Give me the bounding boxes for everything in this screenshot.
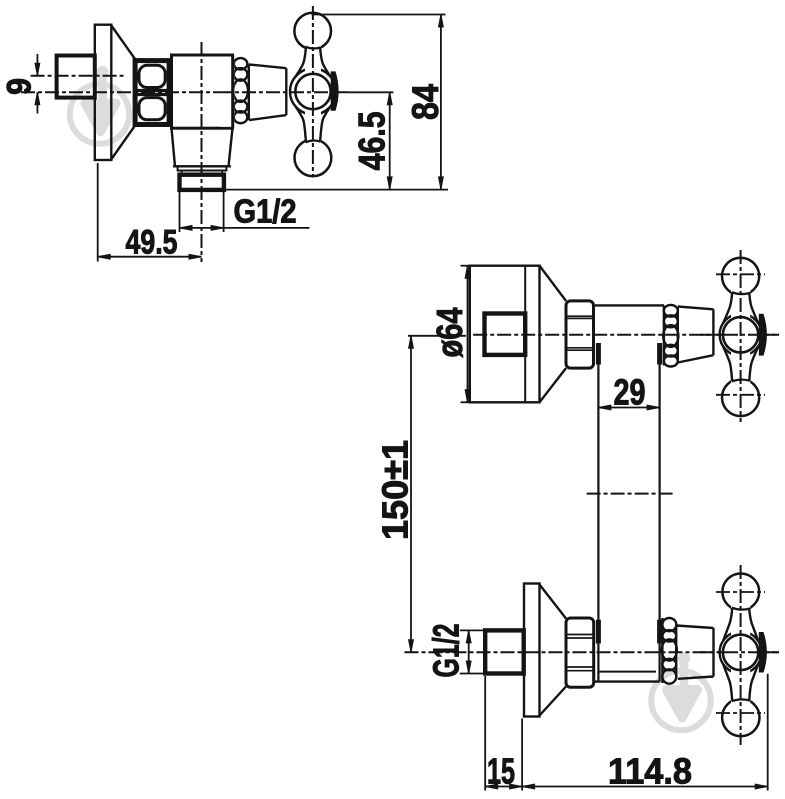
dimension 150 line: [410, 336, 412, 653]
escutcheon cone upper edge: [111, 26, 137, 63]
svg-text:49.5: 49.5: [126, 224, 178, 262]
body vertical centerline: [201, 42, 203, 262]
dimension 29 line: [598, 407, 659, 409]
redraw bottom axis over hub: [700, 651, 779, 653]
svg-text:9: 9: [1, 78, 39, 95]
top hex nut: [566, 301, 594, 368]
pipe junction thick fillets bottom: [596, 620, 601, 644]
bottom dimension extension lines: [484, 676, 486, 791]
top connection axis centerline: [473, 334, 779, 336]
bottom elbow lower lines: [598, 671, 656, 673]
bonnet cone: [249, 64, 286, 120]
elbow top line: [595, 304, 664, 306]
bottom hex nut: [566, 618, 594, 687]
handle arm white fill: [305, 39, 321, 149]
bottom handle hub housing: [720, 631, 762, 673]
dimension G1/2 extension lines: [179, 191, 181, 232]
dimension 49.5 line: [98, 256, 202, 258]
top collar scallops: [663, 305, 678, 367]
top handle hub inner circle: [723, 317, 758, 352]
dimension G1/2 line with leader: [180, 227, 310, 229]
bottom handle bottom knob: [722, 699, 759, 736]
svg-text:84: 84: [405, 84, 446, 120]
handle front cap (black): [331, 71, 339, 110]
bottom knob: [295, 139, 332, 176]
wall flange plate: [95, 25, 112, 160]
dimension G1/2 bottom extension lines: [460, 629, 485, 631]
dimension 9 arrows: [36, 54, 38, 76]
top handle arm waist edges: [723, 292, 758, 381]
axis extension to 46.5: [348, 91, 393, 93]
dimension 46.5 line: [389, 92, 391, 189]
bottom dimension line 15 / 114.8: [485, 786, 768, 788]
pipe junction thick fillets top: [596, 343, 601, 365]
bottom collar scallops: [662, 618, 677, 684]
dimension 84 top extension line: [312, 14, 446, 16]
top handle arm white fill: [731, 284, 750, 390]
decorative collar scallops: [233, 58, 248, 123]
bottom escutcheon plate: [524, 584, 540, 717]
top handle bottom knob: [722, 379, 759, 416]
top wall stub (square): [485, 314, 526, 355]
svg-text:ø64: ø64: [429, 308, 470, 358]
top handle front cap (black): [759, 314, 767, 356]
outlet threaded stub G1/2: [180, 175, 224, 190]
valve body main rectangle: [172, 55, 233, 128]
svg-text:G1/2: G1/2: [426, 624, 467, 678]
redraw top axis over hub: [700, 334, 779, 336]
bottom handle arm waist edges: [723, 608, 758, 701]
bottom handle vertical centerline: [740, 565, 742, 745]
watermark logo top-left: [70, 66, 129, 144]
top handle knob crosshairs: [716, 273, 765, 275]
bottom cone edges: [540, 585, 567, 716]
top handle vertical centerline: [740, 250, 742, 422]
body interior mask over scallops: [220, 57, 234, 127]
outlet thin band: [182, 171, 223, 175]
escutcheon cone lower edge: [111, 122, 137, 159]
top cone edges: [540, 266, 567, 403]
top bonnet cone: [678, 307, 714, 363]
inlet pipe (threaded wall stub): [57, 56, 95, 98]
bottom connection axis centerline: [405, 651, 780, 653]
bottom handle top knob: [722, 574, 759, 611]
outlet flare band: [178, 166, 227, 170]
dimension 84 line: [440, 15, 442, 190]
svg-text:15: 15: [487, 751, 515, 792]
handle hub housing: [290, 69, 336, 115]
top knob: [294, 13, 331, 50]
riser pipe left edge: [597, 343, 599, 682]
bottom handle front cap (black): [759, 632, 767, 673]
redraw axis over hub: [218, 91, 348, 93]
dimension o64 extension lines: [461, 265, 470, 267]
top handle top knob: [722, 258, 759, 295]
valve body lower taper: [172, 128, 233, 166]
cup rim line: [524, 266, 526, 403]
top escutcheon cup: [470, 266, 540, 403]
dimension 150 extension lines: [408, 335, 466, 337]
bottom handle knob neck arcs: [732, 608, 750, 702]
bottom handle hub inner circle: [723, 635, 758, 670]
bottom bonnet cone: [676, 626, 713, 679]
svg-text:29: 29: [614, 372, 646, 413]
body axis centerline: [21, 91, 218, 93]
hex nut: [135, 61, 169, 125]
watermark logo bottom-right: [651, 653, 710, 731]
inlet pipe centerline: [31, 75, 126, 77]
knob neck arcs: [305, 47, 320, 143]
dimension G1/2 bottom line: [468, 630, 470, 673]
body right edge redraw: [231, 55, 234, 128]
top handle knob neck arcs: [732, 292, 750, 381]
handle arm waist edges: [296, 47, 330, 142]
svg-text:46.5: 46.5: [352, 111, 393, 170]
hub inner circle: [295, 74, 330, 109]
riser pipe mid centerline: [587, 493, 674, 495]
dimension o64 line: [467, 266, 469, 403]
bottom wall stub G1/2: [485, 630, 524, 673]
svg-text:150±1: 150±1: [375, 440, 416, 540]
dimension 46.5 bottom extension line: [224, 189, 448, 191]
bottom handle arm white fill: [731, 600, 750, 709]
svg-text:114.8: 114.8: [608, 751, 692, 792]
dimension 49.5 extension line: [97, 163, 99, 262]
svg-text:G1/2: G1/2: [234, 193, 297, 230]
riser pipe right edge: [658, 343, 660, 682]
bottom handle knob crosshairs: [716, 591, 765, 593]
top handle hub housing: [720, 314, 762, 356]
